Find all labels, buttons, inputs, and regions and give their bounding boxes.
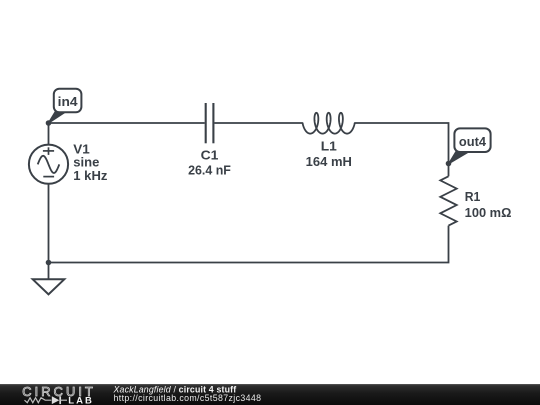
svg-text:in4: in4 — [58, 95, 78, 109]
footer bar — [0, 384, 540, 405]
junction: node out4 on right rail — [446, 161, 452, 167]
svg-text:164 mH: 164 mH — [306, 155, 352, 169]
label L1 value 164 mH — [306, 155, 352, 169]
svg-text:1 kHz: 1 kHz — [73, 169, 107, 183]
label V1 name — [73, 142, 90, 156]
wire: L1 right terminal to top-right corner down to out4 junction — [355, 123, 449, 164]
wire: in4 junction down to V1 positive terminal — [48, 123, 50, 145]
svg-text:LAB: LAB — [68, 396, 94, 405]
wire: net in4 top rail from junction to C1 left plate — [49, 122, 205, 124]
label R1 value 100 mOhm — [465, 206, 512, 220]
ground — [33, 263, 65, 295]
CircuitLab logo: diode symbol — [52, 396, 67, 404]
footer credit line: url — [114, 393, 262, 403]
svg-text:100 mΩ: 100 mΩ — [465, 206, 512, 220]
capacitor C1 — [206, 103, 214, 143]
junction: ground node on bottom rail — [46, 260, 52, 266]
footer credit line: author / title — [113, 384, 237, 394]
CircuitLab logo: CIRCUIT wordmark — [22, 384, 96, 399]
label C1 value 26.4 nF — [188, 163, 231, 177]
svg-text:R1: R1 — [465, 190, 481, 204]
svg-text:sine: sine — [73, 156, 99, 170]
svg-text:V1: V1 — [73, 142, 90, 156]
svg-text:C1: C1 — [201, 148, 219, 162]
label R1 name — [465, 190, 481, 204]
CircuitLab logo: resistor zigzag lead-in — [25, 398, 52, 403]
label L1 name — [321, 140, 337, 154]
wire: R1 bottom pin down to bottom-right corner and bottom ground rail to ground junction — [49, 226, 449, 263]
junction: node in4 at V1 top — [46, 120, 52, 126]
wire: V1 negative terminal down to ground junction — [48, 184, 50, 263]
voltage source V1 — [29, 145, 68, 184]
CircuitLab logo: LAB wordmark — [68, 396, 94, 405]
wire: C1 right plate to L1 left terminal — [214, 122, 302, 124]
label C1 name — [201, 148, 219, 162]
svg-text:26.4 nF: 26.4 nF — [188, 163, 231, 177]
svg-text:out4: out4 — [459, 135, 486, 149]
svg-text:http://circuitlab.com/c5t587zj: http://circuitlab.com/c5t587zjc3448 — [114, 393, 262, 403]
resistor R1 — [440, 176, 456, 225]
svg-text:L1: L1 — [321, 140, 337, 154]
label V1 value 1 kHz — [73, 169, 107, 183]
label V1 type sine — [73, 156, 99, 170]
wire: out4 junction down to R1 top pin — [448, 164, 450, 177]
net flag out4 — [449, 128, 491, 163]
net flag in4 — [49, 89, 82, 123]
inductor L1 — [303, 113, 355, 134]
